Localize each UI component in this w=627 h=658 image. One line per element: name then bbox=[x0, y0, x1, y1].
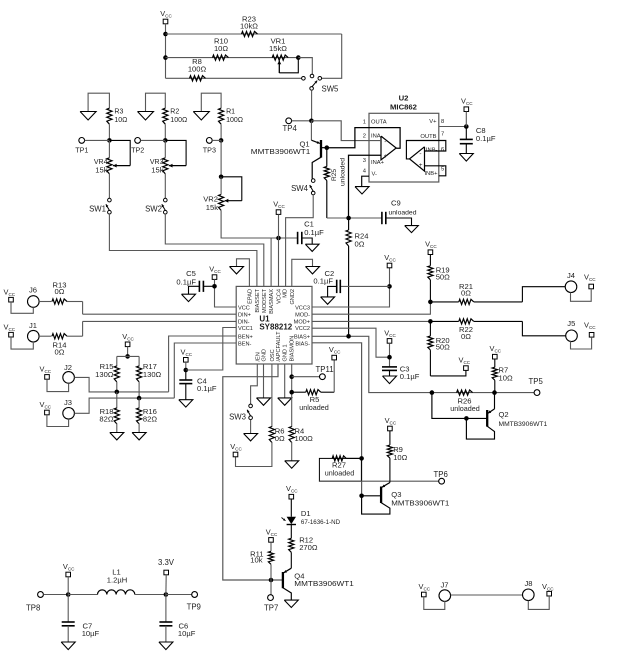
wire Vcc to VCC pin bbox=[215, 279, 237, 307]
resistor R26 bbox=[457, 390, 473, 395]
svg-text:MMTB3906WT1: MMTB3906WT1 bbox=[294, 579, 354, 588]
resistor R6 bbox=[269, 427, 274, 443]
wire GND1 pin to ground bbox=[284, 364, 286, 398]
power Vcc for R15/R17 bbox=[122, 332, 134, 347]
wire BIASMAX riser bbox=[270, 238, 272, 286]
node Q3 base junction bbox=[359, 494, 364, 499]
resistor R10 bbox=[213, 55, 229, 60]
svg-text:7: 7 bbox=[441, 132, 444, 138]
svg-text:270Ω: 270Ω bbox=[299, 543, 318, 552]
wire BIAS+ run bbox=[312, 336, 534, 392]
node C2 junction bbox=[387, 284, 392, 289]
ground for U2 V- bbox=[355, 187, 369, 194]
label VR1 value bbox=[269, 37, 287, 54]
svg-text:D1: D1 bbox=[301, 509, 311, 518]
node TP1 junction bbox=[107, 138, 112, 143]
svg-text:SW5: SW5 bbox=[322, 84, 340, 93]
capacitor C2 bbox=[328, 280, 390, 297]
label TP9 bbox=[187, 603, 201, 612]
ground for C7 bbox=[61, 642, 75, 650]
wire OUTB feedback bbox=[406, 141, 445, 159]
power 3.3V square bbox=[164, 570, 169, 575]
svg-text:10k: 10k bbox=[250, 556, 262, 565]
node Q4 base/R11 junction bbox=[269, 578, 274, 583]
wire Vcc to C3 node bbox=[389, 343, 391, 367]
wire Vcc split to R15/R17 bbox=[117, 347, 139, 367]
wire TP6 line bbox=[319, 480, 438, 482]
power Vcc rail symbol (top) bbox=[160, 9, 172, 24]
svg-text:unloaded: unloaded bbox=[389, 210, 417, 217]
svg-text:VCC: VCC bbox=[238, 305, 250, 311]
svg-text:10kΩ: 10kΩ bbox=[240, 22, 258, 31]
label R10 value bbox=[214, 37, 228, 54]
connector J3 bbox=[63, 398, 75, 419]
resistor R25 (vertical) bbox=[324, 148, 329, 218]
svg-text:INA+: INA+ bbox=[371, 160, 385, 166]
wire BEN+ riser bbox=[169, 336, 237, 392]
wire OUTA feedback to Q1 base bbox=[327, 128, 400, 149]
power Vcc for C3 bbox=[384, 328, 396, 343]
svg-text:BEN+: BEN+ bbox=[238, 335, 253, 341]
wire J2 to BEN+ row bbox=[74, 377, 168, 392]
node C6 junction bbox=[164, 592, 169, 597]
ic U2 outline bbox=[369, 113, 439, 182]
wire SW2 to MODSET bus bbox=[165, 214, 263, 286]
label U1 title bbox=[259, 314, 292, 331]
label R7 bbox=[499, 366, 513, 383]
transistor Q1 bbox=[311, 121, 326, 179]
power Vcc for R6 bbox=[230, 442, 242, 457]
power Vcc for R7 bbox=[490, 344, 502, 359]
svg-text:82Ω: 82Ω bbox=[99, 414, 113, 423]
node VR2 top junction bbox=[219, 175, 224, 180]
svg-text:VCC1: VCC1 bbox=[238, 326, 253, 332]
wire R16 link bbox=[138, 398, 140, 408]
ground for EPAD bbox=[230, 267, 244, 274]
svg-text:BIAS-: BIAS- bbox=[295, 342, 310, 348]
svg-text:MMTB3906WT1: MMTB3906WT1 bbox=[499, 421, 548, 428]
wire SW4 pole to MD pin bbox=[286, 195, 314, 287]
node junction R10 row bbox=[163, 55, 168, 60]
svg-text:0.1µF: 0.1µF bbox=[197, 384, 217, 393]
ground for R2 bbox=[138, 112, 154, 121]
node R27 junction bbox=[359, 456, 364, 461]
svg-text:SW1: SW1 bbox=[89, 205, 106, 214]
svg-text:MOD-: MOD- bbox=[295, 313, 310, 319]
resistor R13 bbox=[52, 299, 83, 304]
testpoint TP8 bbox=[38, 592, 44, 598]
svg-text:0.1µF: 0.1µF bbox=[476, 134, 496, 143]
svg-text:unloaded: unloaded bbox=[450, 404, 480, 413]
ground for R16 bbox=[132, 433, 146, 440]
wire SW3 to ground bbox=[250, 420, 252, 434]
capacitor C7 bbox=[62, 595, 75, 643]
svg-text:8: 8 bbox=[441, 119, 444, 125]
ground for R1 bbox=[193, 112, 209, 121]
capacitor C1 bbox=[298, 232, 313, 244]
svg-text:-: - bbox=[419, 151, 421, 158]
resistor R20 bbox=[428, 321, 433, 376]
capacitor C6 bbox=[159, 595, 172, 643]
svg-text:+: + bbox=[419, 162, 423, 169]
svg-text:15k: 15k bbox=[206, 203, 218, 212]
svg-text:TP2: TP2 bbox=[131, 146, 144, 155]
label R15 bbox=[95, 362, 114, 379]
label VR2 bbox=[203, 195, 218, 213]
svg-text:TP6: TP6 bbox=[434, 470, 448, 479]
label R6 bbox=[275, 426, 285, 443]
wire J8 Vcc hook bbox=[528, 596, 549, 609]
ground for GND2 bbox=[306, 267, 320, 274]
label TP7 bbox=[264, 604, 278, 613]
wire J6 to R13 bbox=[39, 301, 51, 303]
wire GND2 to ground bbox=[292, 259, 313, 286]
wire VR4 to switch bbox=[108, 174, 110, 199]
wire J6 Vcc hook bbox=[11, 302, 33, 313]
label R14 bbox=[53, 341, 67, 357]
label TP5 bbox=[529, 377, 544, 386]
wire R2 to node bbox=[164, 124, 166, 140]
svg-text:0Ω: 0Ω bbox=[355, 240, 365, 249]
svg-text:2: 2 bbox=[363, 134, 366, 140]
svg-text:10µF: 10µF bbox=[82, 629, 100, 638]
label R21 bbox=[459, 282, 473, 298]
wire Vcc vertical to R8 row bbox=[165, 24, 167, 79]
label C8 bbox=[476, 126, 496, 143]
resistor R7 bbox=[492, 359, 497, 393]
svg-text:MODSET: MODSET bbox=[262, 288, 268, 313]
label R25 unloaded bbox=[331, 158, 347, 186]
testpoint TP9 bbox=[192, 592, 198, 598]
svg-text:BIASMON: BIASMON bbox=[290, 336, 296, 362]
node TP4 junction bbox=[309, 119, 314, 124]
node Q1 base junction bbox=[325, 145, 330, 150]
power Vcc for J1 bbox=[4, 322, 16, 337]
svg-text:1: 1 bbox=[363, 120, 366, 126]
power Vcc for J6 bbox=[4, 287, 16, 302]
inductor L1 bbox=[68, 590, 166, 595]
svg-text:10Ω: 10Ω bbox=[214, 44, 228, 53]
svg-text:BIASSET: BIASSET bbox=[255, 288, 261, 312]
wire R1 node down bbox=[220, 140, 222, 176]
svg-text:TP3: TP3 bbox=[203, 146, 216, 155]
svg-text:V-: V- bbox=[372, 172, 378, 178]
wire EPAD to ground bbox=[237, 259, 250, 287]
resistor R23 bbox=[242, 31, 258, 36]
svg-text:MMTB3906WT1: MMTB3906WT1 bbox=[391, 498, 449, 507]
label TP8 bbox=[26, 603, 40, 612]
ground for C9 bbox=[405, 226, 419, 233]
node VR1 wiper junction bbox=[296, 55, 301, 60]
wire R13 riser to DIN+ bbox=[82, 302, 84, 315]
svg-text:TP9: TP9 bbox=[187, 603, 201, 612]
testpoint TP5 bbox=[534, 390, 540, 396]
svg-text:SW2: SW2 bbox=[145, 205, 162, 214]
svg-text:R25: R25 bbox=[331, 169, 338, 181]
label R27 unloaded bbox=[325, 461, 355, 478]
svg-text:5: 5 bbox=[441, 167, 444, 173]
resistor R18 bbox=[114, 408, 119, 424]
svg-text:R2: R2 bbox=[170, 109, 179, 116]
svg-text:unloaded: unloaded bbox=[325, 469, 355, 478]
wire J3 Vcc hook bbox=[47, 415, 69, 427]
resistor R19 bbox=[428, 255, 433, 302]
label R23 value bbox=[240, 15, 258, 31]
label C1 bbox=[304, 220, 324, 237]
wire INA+ to R24 node bbox=[349, 155, 382, 218]
wire R22 to J5 bbox=[522, 321, 565, 335]
resistor R21 bbox=[430, 299, 522, 304]
wire Vcc to VCC1 pin bbox=[184, 328, 237, 373]
svg-text:OUTB: OUTB bbox=[420, 134, 436, 140]
resistor R22 bbox=[430, 319, 522, 324]
label TP2 bbox=[131, 146, 144, 155]
svg-text:130Ω: 130Ω bbox=[143, 370, 162, 379]
wire R18 link bbox=[116, 392, 118, 409]
svg-text:R1: R1 bbox=[226, 109, 235, 116]
resistor R24 (vertical) bbox=[346, 218, 351, 336]
wire U2 pin8 V+ bbox=[439, 126, 467, 128]
svg-text:MD: MD bbox=[283, 289, 289, 298]
svg-text:U2: U2 bbox=[399, 93, 409, 102]
label L1 bbox=[107, 567, 127, 584]
label C6 bbox=[178, 621, 196, 638]
wire node to TP9 bbox=[166, 594, 192, 596]
resistor R3 bbox=[107, 108, 112, 124]
wire R5 to Vcc bbox=[333, 360, 335, 392]
svg-text:TP4: TP4 bbox=[283, 124, 298, 133]
wire U2 pin4 V- to ground bbox=[362, 176, 369, 186]
svg-text:EPAD: EPAD bbox=[247, 289, 253, 304]
wire R8 row bbox=[166, 77, 302, 79]
label C9 bbox=[389, 198, 417, 216]
wire BIASMON down bbox=[291, 364, 293, 427]
node junction R23 row bbox=[163, 32, 168, 37]
wire J2 Vcc hook bbox=[47, 379, 69, 391]
ground for C4 bbox=[179, 400, 193, 407]
power Vcc for R20 bbox=[459, 356, 471, 371]
svg-text:15kΩ: 15kΩ bbox=[269, 44, 287, 53]
potentiometer VR1 bbox=[272, 55, 298, 73]
connector J5 bbox=[566, 319, 578, 342]
node R7 junction bbox=[492, 390, 497, 395]
power Vcc for R19 bbox=[425, 240, 437, 255]
wire VR1 to SW5 center bbox=[298, 58, 312, 75]
power Vcc for J2 bbox=[40, 364, 52, 379]
svg-text:67-1636-1-ND: 67-1636-1-ND bbox=[301, 519, 341, 526]
resistor R27 (boxed, unloaded) bbox=[319, 456, 361, 481]
resistor R14 bbox=[52, 334, 83, 339]
svg-text:R3: R3 bbox=[114, 109, 123, 116]
label R26 unloaded bbox=[450, 397, 480, 414]
node C3 junction bbox=[387, 355, 392, 360]
node R5 junction bbox=[289, 390, 294, 395]
svg-text:100Ω: 100Ω bbox=[226, 117, 243, 124]
svg-text:0.1µF: 0.1µF bbox=[400, 372, 420, 381]
svg-text:10Ω: 10Ω bbox=[499, 373, 513, 382]
label R17 bbox=[143, 362, 162, 379]
label C5 bbox=[176, 269, 196, 287]
label U1 bottom pin names bbox=[255, 331, 295, 362]
wire R21 to J4 bbox=[522, 287, 565, 302]
svg-text:0Ω: 0Ω bbox=[55, 287, 65, 296]
wire J1 Vcc hook bbox=[11, 337, 33, 349]
power Vcc for C4 bbox=[181, 347, 193, 362]
svg-text:15k: 15k bbox=[95, 165, 107, 174]
wire VCC2 jog bbox=[312, 328, 390, 357]
label VR3 bbox=[150, 159, 164, 174]
wire VR3 to switch bbox=[164, 174, 166, 199]
resistor R2 bbox=[163, 108, 168, 124]
wire J1 to R14 bbox=[39, 335, 51, 337]
label U1 left pin names bbox=[238, 305, 253, 347]
power Vcc for J7 bbox=[419, 582, 431, 597]
svg-text:3.3V: 3.3V bbox=[158, 558, 175, 567]
svg-text:unloaded: unloaded bbox=[340, 158, 347, 186]
svg-text:50Ω: 50Ω bbox=[436, 272, 450, 281]
potentiometer VR2 bbox=[219, 177, 242, 211]
svg-text:TP7: TP7 bbox=[264, 604, 278, 613]
label R22 bbox=[459, 325, 473, 341]
label R18 bbox=[99, 407, 113, 424]
wire J7 Vcc hook bbox=[424, 597, 445, 610]
node BIAS+/R24 junction bbox=[346, 334, 351, 339]
label U1 right pin names bbox=[294, 305, 310, 347]
wire TP4 to INA- input bbox=[311, 121, 381, 141]
label Q1 bbox=[251, 139, 310, 156]
svg-text:100Ω: 100Ω bbox=[295, 434, 314, 443]
resistor R5 (unloaded) bbox=[292, 390, 335, 395]
label Q3 bbox=[391, 490, 449, 507]
svg-text:GND2: GND2 bbox=[290, 289, 296, 305]
wire hook above R1 bbox=[201, 93, 221, 111]
capacitor C9 bbox=[382, 212, 412, 226]
op-amp U2B triangle bbox=[410, 147, 425, 171]
node R17/J3 junction bbox=[137, 396, 142, 401]
capacitor C3 bbox=[382, 367, 397, 376]
label R11 bbox=[250, 550, 263, 565]
power Vcc for R9 bbox=[385, 416, 397, 431]
resistor R16 bbox=[137, 408, 142, 424]
wire J5 Vcc hook bbox=[571, 337, 592, 349]
wire D1 to R12 bbox=[290, 525, 292, 539]
testpoint TP4 bbox=[286, 118, 312, 124]
power Vcc for J5 bbox=[584, 321, 596, 337]
wire GND2... VCC3 to Vcc bbox=[312, 268, 390, 307]
svg-text:BIASMAX: BIASMAX bbox=[269, 289, 275, 314]
wire R17 to node bbox=[138, 382, 140, 398]
label SW4 bbox=[291, 184, 309, 193]
wire Vcc to D1 bbox=[290, 499, 292, 517]
label C7 bbox=[82, 621, 100, 638]
wire R20 to Vcc bbox=[430, 370, 466, 376]
switch SW1 bbox=[106, 198, 111, 214]
wire SW5 pole to TP4 node bbox=[311, 90, 313, 121]
svg-text:SY88212: SY88212 bbox=[259, 323, 292, 332]
ground for C5 bbox=[182, 294, 196, 301]
svg-text:J8: J8 bbox=[525, 579, 533, 588]
label R12 bbox=[299, 535, 318, 552]
svg-text:6: 6 bbox=[441, 147, 444, 153]
wire GND pin to ground bbox=[263, 364, 265, 398]
connector J6 bbox=[28, 285, 40, 307]
label R8 value bbox=[188, 57, 207, 74]
wire Vcc to VCC4 pin bbox=[278, 214, 280, 286]
label R16 bbox=[143, 407, 157, 424]
label R3 value bbox=[114, 109, 127, 125]
label TP11 bbox=[316, 365, 334, 374]
label C4 bbox=[197, 377, 217, 394]
node TP11 junction bbox=[289, 374, 294, 379]
wire Vcc to node bbox=[67, 577, 69, 595]
svg-text:0Ω: 0Ω bbox=[275, 434, 285, 443]
svg-text:MIC862: MIC862 bbox=[390, 102, 417, 111]
label R13 bbox=[53, 280, 67, 296]
wire DIN- line bbox=[83, 320, 237, 322]
svg-text:3: 3 bbox=[363, 158, 366, 164]
capacitor C4 bbox=[179, 370, 192, 400]
node R24 top junction bbox=[346, 216, 351, 221]
power Vcc for D1 bbox=[286, 484, 298, 499]
wire DIN+ line bbox=[83, 313, 237, 315]
switch SW5 bbox=[302, 74, 322, 90]
power Vcc for U2 bbox=[461, 97, 473, 112]
switch SW4 bbox=[310, 179, 315, 195]
label U2 title bbox=[390, 93, 417, 111]
diode D1 (photodiode) bbox=[282, 517, 297, 525]
label SW5 bbox=[322, 84, 340, 93]
wire R3 to node bbox=[108, 124, 110, 140]
ground for C1 bbox=[305, 244, 319, 251]
svg-text:TP11: TP11 bbox=[316, 365, 334, 374]
svg-text:J4: J4 bbox=[567, 271, 575, 280]
svg-text:VCC2: VCC2 bbox=[295, 326, 310, 332]
label SW2 bbox=[145, 205, 162, 214]
label TP1 bbox=[75, 146, 88, 155]
label C2 bbox=[313, 269, 334, 286]
ic U1 outline bbox=[236, 286, 312, 364]
svg-text:0.1µF: 0.1µF bbox=[313, 277, 333, 286]
wire hook above R3 bbox=[88, 93, 109, 111]
node VCC4 bus junction bbox=[276, 236, 281, 241]
power Vcc for J8 bbox=[542, 582, 554, 596]
svg-text:100Ω: 100Ω bbox=[170, 117, 187, 124]
resistor R11 bbox=[268, 542, 273, 595]
node TP2 junction bbox=[163, 138, 168, 143]
power Vcc for J4 bbox=[584, 272, 596, 289]
svg-text:OSC: OSC bbox=[270, 349, 276, 361]
wire R16 to ground bbox=[138, 423, 140, 432]
capacitor C5 bbox=[189, 281, 215, 295]
svg-text:V+: V+ bbox=[429, 119, 437, 125]
node R15/J2 junction bbox=[115, 390, 120, 395]
testpoint TP7 bbox=[268, 595, 274, 601]
ground for R18 bbox=[110, 433, 124, 440]
wire R10/VR1 row bbox=[166, 57, 313, 59]
node Q2 base junction bbox=[464, 416, 469, 421]
svg-text:GND 1: GND 1 bbox=[283, 344, 289, 361]
wire J3 to BEN- row bbox=[74, 398, 174, 413]
svg-text:SW4: SW4 bbox=[291, 184, 309, 193]
label TP4 bbox=[283, 124, 298, 133]
svg-text:MMTB3906WT1: MMTB3906WT1 bbox=[251, 147, 310, 156]
node C8 junction bbox=[464, 124, 469, 129]
svg-text:J5: J5 bbox=[567, 319, 575, 328]
svg-text:BEN-: BEN- bbox=[238, 342, 252, 348]
svg-text:TP5: TP5 bbox=[529, 377, 544, 386]
ground for R3 bbox=[80, 112, 96, 121]
ground for SW3 bbox=[244, 434, 258, 441]
